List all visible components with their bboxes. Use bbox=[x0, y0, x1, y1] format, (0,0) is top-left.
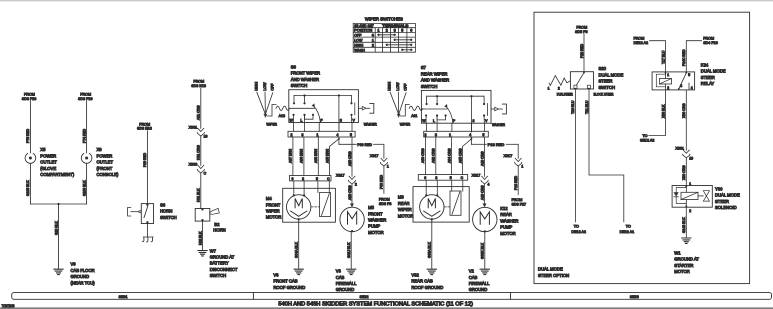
mechanical linkage A11 (S7) bbox=[400, 105, 409, 117]
svg-text:GROUND: GROUND bbox=[469, 287, 488, 292]
svg-text:A03 ORG: A03 ORG bbox=[421, 148, 425, 163]
wire A09 ORG to X317 bbox=[351, 137, 353, 176]
svg-text:C: C bbox=[204, 172, 207, 176]
S20 actuator zigzag bbox=[549, 76, 570, 86]
svg-text:AND WASHER: AND WASHER bbox=[421, 78, 449, 83]
svg-text:X317: X317 bbox=[472, 173, 481, 177]
svg-text:X68 BLK: X68 BLK bbox=[661, 104, 665, 118]
svg-text:SD3 F19: SD3 F19 bbox=[22, 97, 37, 101]
wire A09 ORG to M5 bbox=[351, 184, 353, 204]
svg-text:WIPER: WIPER bbox=[400, 122, 411, 126]
svg-text:W: W bbox=[422, 119, 426, 123]
svg-text:T20 BLU: T20 BLU bbox=[571, 100, 575, 114]
connector strip above M4 bbox=[290, 176, 332, 181]
svg-text:GROUND: GROUND bbox=[336, 287, 355, 292]
svg-text:V: V bbox=[353, 118, 356, 122]
svg-text:HIGH: HIGH bbox=[354, 43, 363, 47]
svg-text:FRONT: FRONT bbox=[266, 202, 281, 207]
svg-text:4: 4 bbox=[337, 133, 339, 137]
svg-text:FRONT WIPER: FRONT WIPER bbox=[291, 71, 320, 76]
dual mode steer option enclosure bbox=[534, 12, 750, 283]
svg-text:DUALSTEER: DUALSTEER bbox=[557, 92, 573, 96]
junction at S9 strip pin 4 bbox=[338, 137, 340, 144]
ground V9 bbox=[54, 269, 63, 274]
svg-text:W7: W7 bbox=[210, 248, 217, 253]
bus bar SE31 bbox=[12, 293, 772, 300]
svg-text:ROOF GROUND: ROOF GROUND bbox=[273, 285, 305, 290]
switch S7 mechanical feed bbox=[421, 108, 447, 110]
svg-text:0: 0 bbox=[372, 33, 374, 37]
wire pin4 to rear strip B (diagonal) bbox=[463, 139, 472, 175]
switch S7 interior wires to bottom bbox=[425, 116, 427, 124]
ground V2 bbox=[480, 269, 489, 274]
svg-text:HORN: HORN bbox=[213, 227, 225, 232]
svg-text:1: 1 bbox=[548, 87, 550, 91]
wire T21 BLU (S20 right output) bbox=[589, 88, 624, 222]
svg-text:A01 ORG: A01 ORG bbox=[197, 105, 201, 120]
svg-text:4: 4 bbox=[691, 86, 693, 90]
svg-text:1: 1 bbox=[521, 165, 523, 169]
svg-text:REAR: REAR bbox=[500, 212, 512, 217]
svg-text:3: 3 bbox=[473, 119, 475, 123]
svg-text:SD4 F10: SD4 F10 bbox=[703, 41, 718, 45]
svg-text:A06 BRN: A06 BRN bbox=[300, 148, 304, 163]
svg-text:GROUND AT: GROUND AT bbox=[210, 255, 235, 260]
wire P74 RED bbox=[86, 101, 88, 153]
svg-text:V32: V32 bbox=[411, 272, 419, 277]
svg-text:GROUND: GROUND bbox=[71, 274, 90, 279]
svg-text:Y30: Y30 bbox=[715, 186, 723, 191]
svg-text:X317: X317 bbox=[504, 154, 513, 158]
svg-text:WASHER: WASHER bbox=[500, 218, 518, 223]
svg-text:SD8 K13: SD8 K13 bbox=[191, 84, 206, 88]
wires S9 to connector strip bbox=[293, 123, 295, 132]
wire G105 BLK bbox=[29, 163, 31, 204]
rear wiper motor M3 box bbox=[413, 187, 469, 223]
page top border bbox=[0, 0, 773, 2]
svg-text:3: 3 bbox=[302, 177, 304, 181]
wire junction to V9 ground bbox=[30, 203, 86, 205]
svg-text:PUMP: PUMP bbox=[368, 224, 380, 229]
wire pin4 to strip B (diagonal) bbox=[330, 139, 339, 176]
ground V3 bbox=[347, 269, 356, 274]
svg-text:X309: X309 bbox=[189, 163, 198, 167]
svg-text:3: 3 bbox=[435, 176, 437, 180]
svg-text:OUTLET: OUTLET bbox=[97, 160, 114, 165]
svg-text:V9: V9 bbox=[71, 262, 77, 267]
svg-text:S6: S6 bbox=[160, 202, 166, 207]
wire A10 ORG to X317 bbox=[484, 137, 486, 176]
svg-text:SD3 F19: SD3 F19 bbox=[78, 97, 93, 101]
svg-text:L: L bbox=[300, 118, 302, 122]
wire P13 RED to source bbox=[517, 166, 519, 195]
svg-text:HORN: HORN bbox=[160, 209, 172, 214]
svg-text:P: P bbox=[320, 118, 323, 122]
wire P13 RED horizontal bbox=[472, 143, 487, 145]
svg-text:WASHER: WASHER bbox=[364, 122, 377, 126]
svg-text:BLOCK STEER: BLOCK STEER bbox=[594, 92, 614, 96]
dual mode steer switch S20 bbox=[570, 72, 593, 89]
wire H01 ORG bbox=[200, 136, 202, 165]
ground V6 bbox=[294, 269, 303, 274]
svg-text:LOW: LOW bbox=[263, 82, 267, 91]
switch S7 upper contacts bbox=[426, 96, 428, 103]
svg-text:CAB: CAB bbox=[469, 275, 478, 280]
wire A10 ORG to K12 bbox=[484, 184, 486, 204]
svg-text:S9 AND S07: S9 AND S07 bbox=[354, 24, 374, 28]
svg-text:P75 RED: P75 RED bbox=[26, 128, 30, 143]
svg-text:2: 2 bbox=[667, 86, 669, 90]
svg-text:P09 RED: P09 RED bbox=[357, 143, 372, 147]
svg-text:REAR: REAR bbox=[398, 201, 410, 206]
svg-text:G09A BLK: G09A BLK bbox=[428, 241, 432, 258]
svg-text:2: 2 bbox=[386, 29, 388, 33]
wires S7 to connector strip bbox=[425, 123, 427, 131]
K24 coil bbox=[665, 72, 667, 74]
svg-text:2: 2 bbox=[355, 182, 357, 186]
wires rear strip B to M3 bbox=[425, 180, 427, 195]
svg-text:WASHER: WASHER bbox=[368, 218, 386, 223]
switch S7 lower contacts bbox=[425, 114, 427, 116]
svg-text:SD3 F27: SD3 F27 bbox=[512, 202, 527, 206]
K24 contact bbox=[685, 72, 687, 74]
chassis connection below S6 bbox=[143, 237, 154, 242]
wires S9 strip to strip B with labels bbox=[292, 137, 294, 176]
svg-text:DE12 A2: DE12 A2 bbox=[571, 230, 586, 234]
svg-text:6: 6 bbox=[424, 176, 426, 180]
bus bar SE33 bbox=[510, 293, 512, 300]
svg-text:SWITCH: SWITCH bbox=[160, 215, 177, 220]
power outlet X6 bbox=[81, 154, 92, 164]
svg-text:S20: S20 bbox=[599, 66, 607, 71]
svg-text:SE12 A2: SE12 A2 bbox=[640, 139, 654, 143]
ground V32 bbox=[427, 269, 436, 274]
wire P24C RED bbox=[686, 41, 701, 72]
svg-text:SWITCH: SWITCH bbox=[291, 83, 308, 88]
svg-text:G143 BLK: G143 BLK bbox=[682, 217, 686, 233]
svg-text:(FRONT: (FRONT bbox=[97, 166, 113, 171]
svg-text:TO: TO bbox=[643, 134, 648, 138]
dual mode steer relay K24 bbox=[652, 72, 695, 90]
svg-text:4: 4 bbox=[469, 133, 471, 137]
svg-text:STEER: STEER bbox=[701, 75, 715, 80]
svg-text:A08 BRN: A08 BRN bbox=[314, 148, 318, 163]
wiper switch S7 box bbox=[421, 90, 491, 123]
svg-text:BATTERY: BATTERY bbox=[210, 261, 229, 266]
svg-text:WIPER: WIPER bbox=[266, 209, 280, 214]
svg-text:V3: V3 bbox=[336, 269, 342, 274]
M3 park switch bbox=[450, 191, 461, 215]
ground W7 bbox=[198, 251, 207, 256]
svg-text:K24: K24 bbox=[701, 63, 709, 68]
svg-text:P20 RED: P20 RED bbox=[580, 43, 584, 58]
ground W1 bbox=[682, 238, 691, 243]
switch S9 long wire to pin4 bbox=[338, 96, 340, 132]
svg-text:DUAL MODE: DUAL MODE bbox=[715, 193, 740, 198]
svg-text:X60 ORG: X60 ORG bbox=[682, 165, 686, 180]
wire P75 RED bbox=[29, 101, 31, 153]
svg-text:TO: TO bbox=[574, 225, 579, 229]
svg-text:C: C bbox=[461, 176, 464, 180]
svg-text:STEER OPTION: STEER OPTION bbox=[538, 273, 569, 278]
switch S9 upper contacts bbox=[293, 96, 295, 103]
svg-text:WASH: WASH bbox=[354, 48, 365, 52]
svg-text:HIGH: HIGH bbox=[254, 81, 258, 90]
connector strip below S9 bbox=[288, 131, 355, 137]
svg-text:TO: TO bbox=[626, 225, 631, 229]
svg-text:A10 ORG: A10 ORG bbox=[480, 185, 484, 200]
Y30 flyback diode bbox=[676, 188, 686, 204]
svg-text:SOLENOID: SOLENOID bbox=[715, 205, 737, 210]
selector lever (S9) bbox=[257, 92, 266, 114]
svg-text:K12: K12 bbox=[500, 206, 508, 211]
switch S7 washer contact bbox=[486, 104, 488, 116]
svg-text:10: 10 bbox=[204, 135, 208, 139]
svg-text:4: 4 bbox=[488, 182, 490, 186]
svg-text:2: 2 bbox=[558, 87, 560, 91]
svg-text:P13 RED: P13 RED bbox=[514, 175, 518, 190]
svg-text:H02 BLK: H02 BLK bbox=[198, 231, 202, 245]
svg-text:5: 5 bbox=[482, 133, 484, 137]
svg-text:6: 6 bbox=[410, 29, 412, 33]
svg-text:A02 ORG: A02 ORG bbox=[432, 148, 436, 163]
connector strip below S7 bbox=[424, 131, 489, 137]
wire G109 BLK bbox=[86, 163, 88, 204]
svg-text:DISCONNECT: DISCONNECT bbox=[210, 267, 238, 272]
switch S9 washer contact bbox=[354, 103, 356, 115]
svg-text:FRONT: FRONT bbox=[368, 211, 383, 216]
svg-text:FIREWALL: FIREWALL bbox=[336, 281, 357, 286]
svg-text:DUAL MODE: DUAL MODE bbox=[701, 69, 726, 74]
svg-text:DE12 A1: DE12 A1 bbox=[620, 230, 635, 234]
svg-text:SWITCH: SWITCH bbox=[599, 85, 616, 90]
svg-text:5: 5 bbox=[316, 177, 318, 181]
svg-text:CAB FLOOR: CAB FLOOR bbox=[71, 268, 95, 273]
svg-text:1: 1 bbox=[449, 133, 451, 137]
wire G09A BLK (M3 ground) bbox=[431, 218, 433, 220]
svg-text:HIGH: HIGH bbox=[388, 81, 392, 90]
svg-text:OUTLET: OUTLET bbox=[40, 160, 57, 165]
svg-text:A11: A11 bbox=[411, 114, 417, 118]
mechanical linkage A13 (S9) bbox=[267, 105, 276, 117]
svg-text:COMPARTMENT): COMPARTMENT) bbox=[40, 172, 74, 177]
svg-text:CONSOLE): CONSOLE) bbox=[97, 172, 119, 177]
svg-text:1: 1 bbox=[317, 133, 319, 137]
rear washer pump motor K12 bbox=[473, 207, 497, 231]
wire G09K BLK (K12 ground) bbox=[484, 232, 486, 269]
Y30 coil bbox=[681, 192, 698, 199]
svg-text:POWER: POWER bbox=[40, 153, 56, 158]
dual mode steer solenoid Y30 bbox=[672, 186, 712, 208]
svg-text:PUMP: PUMP bbox=[500, 225, 512, 230]
switch S7 wiper lever bbox=[446, 106, 453, 123]
wire T17 BLU bbox=[650, 41, 666, 72]
svg-text:SD5 F6: SD5 F6 bbox=[575, 30, 588, 34]
svg-text:DUAL MODE: DUAL MODE bbox=[538, 267, 563, 272]
wire P09 RED to source bbox=[383, 166, 385, 193]
svg-text:2: 2 bbox=[372, 43, 374, 47]
svg-text:H01 BLK: H01 BLK bbox=[197, 188, 201, 202]
svg-text:P24C RED: P24C RED bbox=[682, 49, 686, 66]
M4 park switch bbox=[320, 193, 331, 217]
washer pump motor M5 bbox=[340, 207, 364, 231]
wire G04 BLK (M4 ground) bbox=[298, 218, 300, 220]
svg-text:(NEAR TCU): (NEAR TCU) bbox=[71, 280, 96, 285]
svg-text:A05 ORG: A05 ORG bbox=[458, 148, 462, 163]
svg-text:A10 ORG: A10 ORG bbox=[480, 151, 484, 166]
svg-text:3: 3 bbox=[680, 84, 682, 88]
switch S7 long wire to pin4 bbox=[471, 96, 473, 132]
front wiper motor M4 box bbox=[283, 188, 336, 222]
svg-text:MOTOR: MOTOR bbox=[398, 213, 414, 218]
svg-text:AND WASHER: AND WASHER bbox=[291, 77, 319, 82]
svg-text:A07 BRN: A07 BRN bbox=[289, 148, 293, 163]
svg-text:P09 RED: P09 RED bbox=[380, 174, 384, 189]
svg-text:CAB: CAB bbox=[336, 275, 345, 280]
svg-text:FRONT CAB: FRONT CAB bbox=[273, 279, 297, 284]
svg-text:A05 BRN: A05 BRN bbox=[325, 148, 329, 163]
horn B2 bbox=[195, 209, 210, 222]
wire P09 RED horizontal bbox=[339, 143, 356, 145]
junction at S7 strip pin 4 bbox=[471, 137, 473, 144]
svg-text:SE31: SE31 bbox=[119, 294, 128, 299]
svg-text:2: 2 bbox=[689, 209, 691, 213]
svg-text:DE12 A2: DE12 A2 bbox=[634, 41, 649, 45]
selector lever (S7) bbox=[390, 92, 399, 114]
svg-text:FIREWALL: FIREWALL bbox=[469, 281, 490, 286]
svg-text:V6: V6 bbox=[273, 272, 279, 277]
svg-text:G105 BLK: G105 BLK bbox=[26, 180, 30, 196]
svg-text:SD3 F3: SD3 F3 bbox=[379, 202, 392, 206]
svg-text:M5: M5 bbox=[368, 205, 374, 210]
svg-text:M3: M3 bbox=[398, 195, 404, 200]
wiper switch S9 box bbox=[289, 90, 359, 123]
switch S9 interior wires to bottom bbox=[293, 115, 295, 123]
svg-text:MOTOR: MOTOR bbox=[266, 215, 282, 220]
svg-text:LOW: LOW bbox=[396, 82, 400, 91]
svg-text:OFF: OFF bbox=[354, 33, 362, 37]
wire from S6 to chassis bbox=[146, 224, 148, 238]
svg-text:S9: S9 bbox=[291, 65, 297, 70]
wire G01J BLK (M5 ground) bbox=[350, 232, 352, 269]
svg-text:P29 RED: P29 RED bbox=[143, 152, 147, 167]
svg-text:P: P bbox=[453, 119, 456, 123]
svg-text:A09 ORG: A09 ORG bbox=[348, 185, 352, 200]
svg-text:T21 BLU: T21 BLU bbox=[585, 100, 589, 114]
svg-text:POWER: POWER bbox=[97, 153, 113, 158]
svg-text:3: 3 bbox=[394, 29, 396, 33]
svg-text:5: 5 bbox=[350, 133, 352, 137]
svg-text:WASHER: WASHER bbox=[492, 123, 505, 127]
connector strip above M3 bbox=[418, 175, 467, 181]
svg-text:C: C bbox=[327, 177, 330, 181]
svg-text:V2: V2 bbox=[469, 269, 475, 274]
svg-text:REAR CAB: REAR CAB bbox=[411, 279, 433, 284]
svg-text:G04A BLK: G04A BLK bbox=[295, 241, 299, 258]
svg-text:STARTER: STARTER bbox=[674, 263, 693, 268]
svg-text:SD3 E13: SD3 E13 bbox=[137, 127, 152, 131]
svg-text:MOTOR: MOTOR bbox=[674, 269, 690, 274]
svg-text:H01 ORG: H01 ORG bbox=[197, 145, 201, 160]
svg-text:POSITION: POSITION bbox=[354, 29, 372, 33]
switch S9 mechanical feed bbox=[289, 107, 315, 109]
wire G143 BLK (Y30 ground) bbox=[685, 207, 687, 237]
svg-text:ROOF GROUND: ROOF GROUND bbox=[411, 285, 443, 290]
svg-text:L: L bbox=[433, 119, 435, 123]
svg-text:W1: W1 bbox=[674, 250, 681, 255]
svg-text:WIPER: WIPER bbox=[398, 207, 412, 212]
svg-text:STEER: STEER bbox=[715, 199, 729, 204]
Y30 valve symbol bbox=[698, 195, 703, 197]
svg-text:G01J BLK: G01J BLK bbox=[347, 242, 351, 258]
wire H02 BLK bbox=[202, 221, 204, 250]
svg-text:1: 1 bbox=[378, 29, 380, 33]
svg-text:5: 5 bbox=[450, 176, 452, 180]
svg-text:X301: X301 bbox=[189, 126, 198, 130]
svg-text:3: 3 bbox=[340, 118, 342, 122]
svg-text:3: 3 bbox=[435, 133, 437, 137]
svg-text:G09K BLK: G09K BLK bbox=[481, 242, 485, 259]
svg-text:OFF: OFF bbox=[404, 84, 408, 91]
svg-text:A09 ORG: A09 ORG bbox=[348, 151, 352, 166]
switch S9 L bracket bbox=[305, 115, 314, 119]
svg-text:1: 1 bbox=[387, 165, 389, 169]
wire X68 BLK (K24 pin2) bbox=[649, 90, 666, 136]
svg-text:A13: A13 bbox=[279, 114, 285, 118]
svg-text:G20 BLK: G20 BLK bbox=[54, 221, 58, 235]
svg-text:5: 5 bbox=[401, 29, 403, 33]
wire X60 ORG to Y30 bbox=[685, 158, 687, 186]
svg-text:X6: X6 bbox=[97, 147, 103, 152]
footer rule bbox=[0, 307, 773, 309]
svg-text:V: V bbox=[485, 119, 488, 123]
svg-text:X317: X317 bbox=[370, 154, 379, 158]
svg-text:2: 2 bbox=[290, 133, 292, 137]
svg-text:TERMINALS: TERMINALS bbox=[382, 24, 409, 28]
wire X60 ORG (K24 pin4) bbox=[685, 90, 687, 150]
svg-text:MOTOR: MOTOR bbox=[368, 230, 384, 235]
svg-text:P13 RED: P13 RED bbox=[488, 143, 505, 147]
wiper switches table grid bbox=[353, 23, 415, 52]
svg-text:G109 BLK: G109 BLK bbox=[82, 180, 86, 196]
svg-text:(GLOVE: (GLOVE bbox=[40, 166, 56, 171]
svg-text:SWITCH: SWITCH bbox=[421, 84, 438, 89]
switch S9 internal rail bbox=[294, 95, 352, 97]
svg-text:STEER: STEER bbox=[599, 79, 613, 84]
svg-text:SE33: SE33 bbox=[630, 294, 639, 299]
svg-text:P74 RED: P74 RED bbox=[82, 128, 86, 143]
wire T20 BLU (S20 left output) bbox=[574, 88, 576, 222]
svg-text:6: 6 bbox=[292, 177, 294, 181]
svg-text:GROUND AT: GROUND AT bbox=[674, 257, 699, 262]
svg-text:TX1072898: TX1072898 bbox=[2, 304, 15, 308]
svg-text:MOTOR: MOTOR bbox=[500, 231, 516, 236]
svg-text:S7: S7 bbox=[421, 65, 427, 70]
svg-text:A04 ORG: A04 ORG bbox=[447, 148, 451, 163]
wire A01 ORG bbox=[200, 88, 202, 128]
power outlet X5 bbox=[25, 154, 36, 164]
svg-text:X5: X5 bbox=[40, 147, 46, 152]
svg-text:M4: M4 bbox=[266, 196, 272, 201]
svg-text:DUAL MODE: DUAL MODE bbox=[599, 72, 624, 77]
svg-text:WIPER: WIPER bbox=[266, 122, 277, 126]
svg-text:REAR WIPER: REAR WIPER bbox=[421, 71, 448, 76]
svg-text:1: 1 bbox=[667, 73, 669, 77]
svg-text:T17 BLU: T17 BLU bbox=[661, 50, 665, 64]
svg-text:X60 ORG: X60 ORG bbox=[682, 103, 686, 118]
wires S7 strip to rear strip B with labels bbox=[424, 137, 426, 175]
svg-text:W: W bbox=[290, 118, 294, 122]
